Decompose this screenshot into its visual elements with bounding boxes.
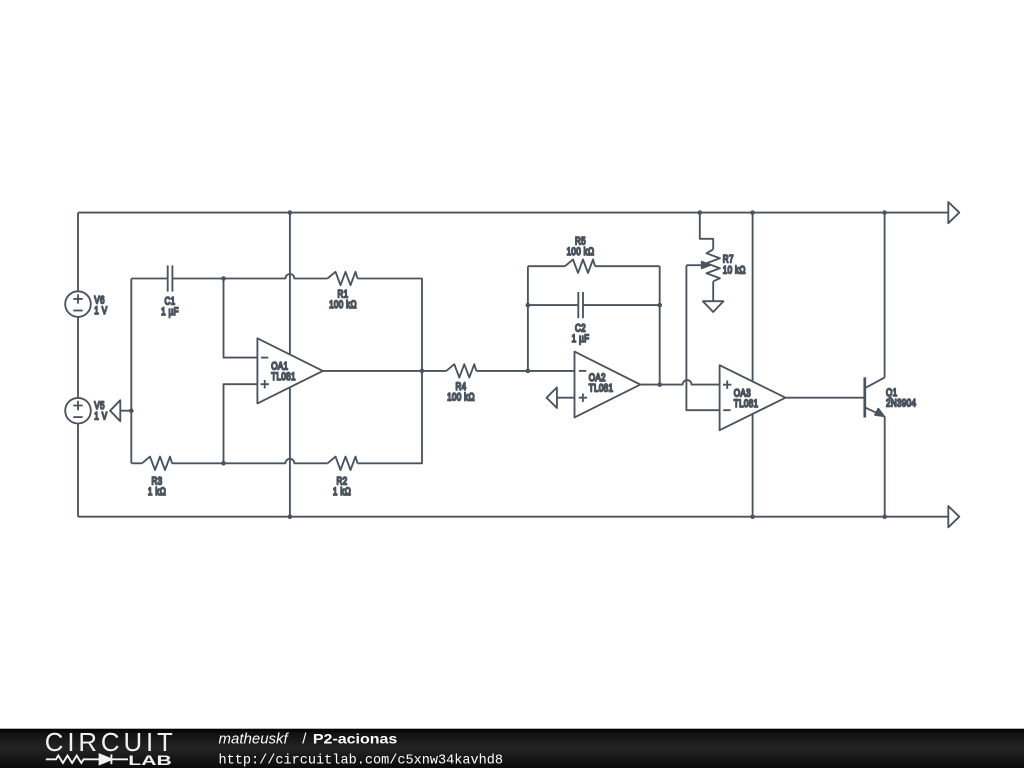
wire OA1 output to R4 bbox=[323, 370, 446, 372]
svg-text:10 kΩ: 10 kΩ bbox=[723, 264, 746, 276]
CircuitLab logo resistor-diode glyph bbox=[46, 754, 128, 764]
junction R3 / R2 / OA1 non-inverting bbox=[221, 461, 226, 466]
junction C1 / R1 / OA1 inverting bbox=[221, 276, 226, 281]
svg-text:100 kΩ: 100 kΩ bbox=[567, 246, 595, 258]
op-amp OA3 bbox=[720, 365, 786, 430]
junction feedback left / C2 bbox=[526, 303, 531, 308]
wire OA1 supply column bbox=[289, 213, 291, 517]
svg-text:TL081: TL081 bbox=[589, 383, 614, 395]
capacitor C2 bbox=[528, 292, 660, 345]
svg-text:TL081: TL081 bbox=[734, 398, 759, 410]
wire left loop vertical bbox=[130, 279, 132, 464]
capacitor C1 bbox=[131, 265, 223, 318]
junction top rail / R7 bbox=[698, 210, 703, 215]
wire R7 wiper to OA3 inverting input bbox=[686, 265, 719, 410]
transistor Q1 bbox=[865, 213, 917, 517]
wire R1 to output node bbox=[358, 279, 423, 371]
junction bottom rail / OA1 supply bbox=[288, 514, 293, 519]
resistor R4 bbox=[446, 364, 476, 403]
svg-text:100 kΩ: 100 kΩ bbox=[329, 299, 357, 311]
wire R2 to output node bbox=[358, 371, 423, 463]
junction bottom rail / OA3 supply bbox=[750, 514, 755, 519]
junction OA1 output node bbox=[420, 369, 425, 374]
junction bottom rail / Q1 emitter bbox=[882, 514, 887, 519]
terminal arrow bottom right bbox=[948, 506, 959, 527]
svg-text:1 µF: 1 µF bbox=[161, 306, 179, 318]
svg-text:1 V: 1 V bbox=[94, 410, 107, 422]
svg-text:LAB: LAB bbox=[128, 752, 171, 768]
op-amp OA2 bbox=[575, 352, 641, 418]
svg-text:P2-acionas: P2-acionas bbox=[313, 731, 397, 747]
junction ground stub / left loop bbox=[129, 408, 134, 413]
ground under R7 bbox=[703, 301, 724, 312]
junction top rail / OA3 supply bbox=[750, 210, 755, 215]
svg-text:1 µF: 1 µF bbox=[572, 333, 590, 345]
potentiometer R7 bbox=[686, 213, 745, 302]
wire top rail bbox=[78, 212, 948, 214]
footer bar bbox=[0, 729, 1024, 768]
op-amp OA1 bbox=[257, 338, 323, 403]
wire plus node to R2 (hop over supply) bbox=[224, 459, 328, 463]
junction OA2 output / feedback right bbox=[657, 382, 662, 387]
wire minus node to R1 (hop over supply) bbox=[224, 274, 328, 278]
wire R4 to OA2 inverting input bbox=[476, 370, 574, 372]
svg-text:1 kΩ: 1 kΩ bbox=[333, 486, 351, 498]
svg-text:http://circuitlab.com/c5xnw34k: http://circuitlab.com/c5xnw34kavhd8 bbox=[219, 753, 504, 768]
voltage source V6 bbox=[65, 291, 107, 317]
wire OA2 non-inverting to ground bbox=[557, 397, 575, 399]
terminal arrow top right bbox=[948, 202, 959, 223]
svg-text:TL081: TL081 bbox=[271, 371, 296, 383]
resistor R1 bbox=[328, 272, 358, 311]
ground at OA2 input bbox=[547, 387, 557, 408]
wire R3 node to OA1 non-inverting input bbox=[224, 384, 258, 463]
wire left rail bbox=[77, 213, 79, 517]
wire feedback left vertical bbox=[527, 266, 529, 371]
wire OA3 output to Q1 base bbox=[786, 397, 865, 399]
wire bottom rail bbox=[78, 516, 948, 518]
junction top rail / Q1 collector bbox=[882, 210, 887, 215]
resistor R5 bbox=[528, 235, 660, 273]
wire feedback right vertical bbox=[659, 266, 661, 384]
ground at left loop node bbox=[110, 400, 120, 421]
wire OA2 output to OA3 (hop over wiper wire) bbox=[640, 380, 719, 385]
resistor R3 bbox=[131, 457, 223, 499]
wire ground stub at left loop bbox=[120, 410, 131, 412]
voltage source V5 bbox=[65, 398, 107, 424]
junction feedback right / C2 bbox=[657, 303, 662, 308]
junction R4 / feedback left bbox=[526, 369, 531, 374]
resistor R2 bbox=[328, 457, 358, 499]
svg-text:100 kΩ: 100 kΩ bbox=[447, 391, 475, 403]
wire OA3 supply column bbox=[752, 213, 754, 517]
junction top rail / OA1 supply bbox=[288, 210, 293, 215]
svg-text:1 V: 1 V bbox=[94, 305, 107, 317]
wire C1 node to OA1 inverting input bbox=[224, 279, 258, 358]
svg-text:2N3904: 2N3904 bbox=[886, 398, 917, 410]
svg-text:1 kΩ: 1 kΩ bbox=[148, 486, 166, 498]
